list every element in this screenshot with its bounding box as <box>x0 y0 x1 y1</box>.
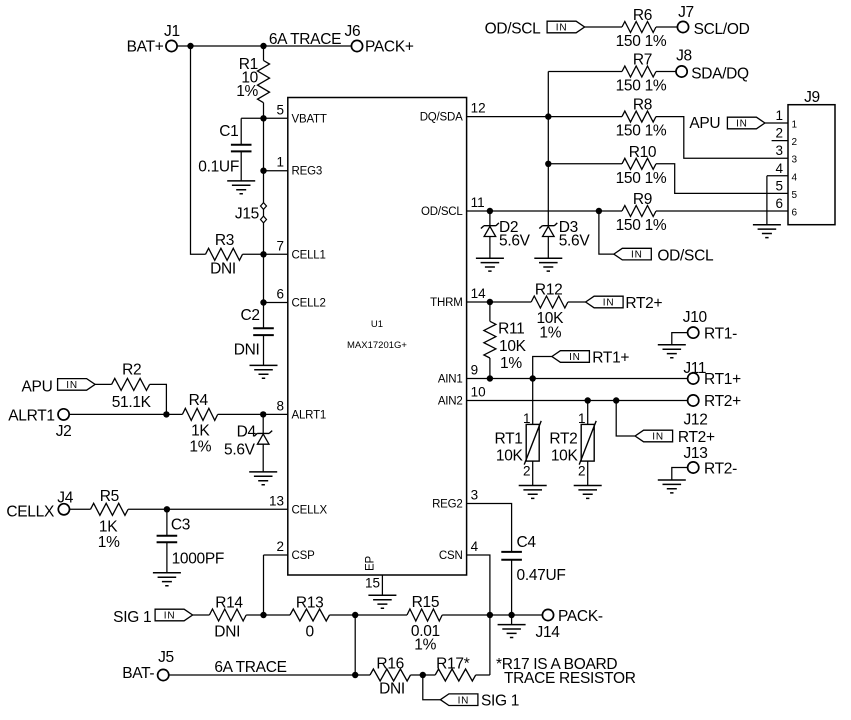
node ALRT1 left junction <box>163 411 169 417</box>
node R1 top junction <box>260 43 266 49</box>
svg-text:J12: J12 <box>683 411 707 428</box>
resistor R16 <box>370 656 411 698</box>
pin 13 CELLX <box>269 493 327 516</box>
connector J8 SDA/DQ <box>676 48 749 83</box>
svg-text:RT1: RT1 <box>494 431 522 448</box>
node CELL2 junction <box>260 299 266 305</box>
svg-text:CELL1: CELL1 <box>292 249 326 261</box>
svg-text:1%: 1% <box>98 534 120 551</box>
wire sense drop <box>354 615 356 675</box>
ground RT2 <box>574 486 602 499</box>
net label RT2+ IN J12 <box>616 401 715 447</box>
svg-text:SDA/DQ: SDA/DQ <box>691 65 749 82</box>
resistor R11 <box>484 302 527 379</box>
resistor R12 <box>531 282 585 342</box>
svg-text:DNI: DNI <box>210 260 236 277</box>
svg-text:RT1-: RT1- <box>704 326 737 343</box>
svg-text:PACK+: PACK+ <box>365 39 414 56</box>
resistor R5 <box>91 488 129 551</box>
svg-text:6: 6 <box>276 287 284 302</box>
svg-text:OD/SCL: OD/SCL <box>485 21 542 38</box>
wire SIG1 to R14 <box>193 614 210 616</box>
svg-text:6A TRACE: 6A TRACE <box>214 659 286 676</box>
node OD/SCL tag junction <box>596 208 602 214</box>
svg-text:IN: IN <box>164 611 176 622</box>
wire THRM row <box>467 301 532 303</box>
ground J10 <box>658 345 686 358</box>
pin 14 THRM <box>430 286 486 309</box>
svg-text:5: 5 <box>792 190 798 201</box>
connector J1 BAT+ <box>127 23 180 56</box>
svg-text:R14: R14 <box>215 594 243 611</box>
svg-text:R5: R5 <box>100 488 119 505</box>
node RT2 junction <box>585 397 591 403</box>
wire pin12 row <box>467 116 622 118</box>
svg-text:C4: C4 <box>517 534 537 551</box>
wire AIN2 row <box>467 400 688 402</box>
svg-text:SIG 1: SIG 1 <box>113 609 151 626</box>
node R10 junction <box>545 161 551 167</box>
node D2 junction <box>487 208 493 214</box>
connector J11 RT1+ <box>683 360 741 388</box>
svg-text:J4: J4 <box>57 489 73 506</box>
node BAT- junction <box>352 672 358 678</box>
svg-text:150 1%: 150 1% <box>616 33 667 50</box>
svg-text:6: 6 <box>792 208 798 219</box>
svg-text:J9: J9 <box>804 89 820 106</box>
svg-text:2: 2 <box>775 126 783 141</box>
capacitor C3 <box>157 509 225 573</box>
svg-text:RT2+: RT2+ <box>678 429 715 446</box>
svg-text:APU: APU <box>22 378 53 395</box>
capacitor C2 <box>234 303 274 366</box>
ground C1 <box>227 181 255 194</box>
connector J13 RT2- <box>672 445 737 480</box>
connector J2 ALRT1 <box>8 407 71 440</box>
svg-text:IN: IN <box>556 23 568 34</box>
svg-text:R11: R11 <box>498 321 524 338</box>
connector J12 RT2+ <box>683 393 741 429</box>
svg-text:5.6V: 5.6V <box>559 233 591 250</box>
svg-text:TRACE RESISTOR: TRACE RESISTOR <box>504 670 636 687</box>
svg-text:10K: 10K <box>496 447 524 464</box>
svg-text:15: 15 <box>365 576 380 591</box>
resistor R9 <box>616 191 788 234</box>
capacitor C4 <box>501 534 565 615</box>
svg-text:J2: J2 <box>56 423 72 440</box>
ground C2 <box>250 365 278 378</box>
svg-text:RT2: RT2 <box>549 431 577 448</box>
svg-text:IN: IN <box>652 432 664 443</box>
wire REG2 <box>467 504 512 552</box>
svg-text:1K: 1K <box>191 423 210 440</box>
svg-text:R6: R6 <box>633 7 652 24</box>
svg-text:THRM: THRM <box>430 297 462 309</box>
svg-text:J13: J13 <box>683 445 707 462</box>
svg-text:R7: R7 <box>633 52 652 69</box>
IC U1 MAX17201G+ <box>288 98 467 576</box>
node C4 junction <box>508 612 514 618</box>
pin 11 OD/SCL <box>421 195 485 218</box>
svg-text:SIG 1: SIG 1 <box>481 693 519 710</box>
svg-text:150 1%: 150 1% <box>616 170 667 187</box>
svg-text:R9: R9 <box>633 191 652 208</box>
svg-text:BAT+: BAT+ <box>127 39 164 56</box>
svg-text:2: 2 <box>276 539 284 554</box>
svg-text:SCL/OD: SCL/OD <box>694 21 750 38</box>
net label OD/SCL IN top <box>485 21 585 38</box>
wire J5 to R16 <box>169 674 370 676</box>
svg-text:J10: J10 <box>683 309 708 326</box>
svg-text:1%: 1% <box>189 438 211 455</box>
zener D2 <box>481 211 531 258</box>
resistor R17 <box>411 656 490 681</box>
svg-text:1: 1 <box>276 155 284 170</box>
svg-text:0.1UF: 0.1UF <box>198 159 239 176</box>
svg-text:10: 10 <box>471 385 486 400</box>
svg-text:CELL2: CELL2 <box>292 298 326 310</box>
resistor R6 <box>616 7 677 50</box>
node VBATT junction <box>260 115 266 121</box>
svg-text:1: 1 <box>775 108 783 123</box>
svg-text:R4: R4 <box>189 392 209 409</box>
node R13 junction <box>352 612 358 618</box>
svg-text:13: 13 <box>269 493 284 508</box>
svg-text:3: 3 <box>775 143 783 158</box>
svg-text:14: 14 <box>471 286 487 301</box>
wire VBATT bus <box>263 118 265 302</box>
ground C3 <box>153 573 181 586</box>
svg-text:1: 1 <box>792 120 798 131</box>
svg-text:PACK-: PACK- <box>558 608 603 625</box>
node BAT+ junction <box>187 43 193 49</box>
svg-text:150 1%: 150 1% <box>616 78 667 95</box>
resistor R4 <box>166 392 287 456</box>
svg-text:1%: 1% <box>414 636 436 653</box>
svg-text:DNI: DNI <box>379 680 405 697</box>
thermistor RT2 <box>549 401 596 486</box>
svg-text:J14: J14 <box>536 624 561 641</box>
node R16 junction <box>420 672 426 678</box>
svg-text:APU: APU <box>689 115 720 132</box>
svg-text:AIN1: AIN1 <box>438 374 463 386</box>
wire CSN <box>467 555 490 675</box>
svg-text:ALRT1: ALRT1 <box>292 409 327 421</box>
note R17 board trace <box>496 656 636 687</box>
svg-text:IN: IN <box>631 250 643 261</box>
svg-text:4: 4 <box>792 172 798 183</box>
connector J14 PACK- <box>536 608 603 641</box>
svg-text:5: 5 <box>775 178 783 193</box>
pin 3 REG2 <box>432 488 478 511</box>
wire APU to R2 <box>95 383 112 385</box>
pin 10 AIN2 <box>438 385 486 408</box>
svg-text:8: 8 <box>276 398 284 413</box>
node AIN1 junction <box>487 375 493 381</box>
net label APU IN <box>22 378 96 395</box>
svg-text:R2: R2 <box>122 362 141 379</box>
svg-text:ALRT1: ALRT1 <box>8 407 54 424</box>
ground D3 <box>534 258 562 271</box>
svg-text:C3: C3 <box>171 516 190 533</box>
svg-text:2: 2 <box>578 464 586 479</box>
capacitor C1 <box>198 118 263 181</box>
connector J5 BAT- <box>122 649 174 682</box>
jumper J15 <box>235 203 267 223</box>
svg-text:CELLX: CELLX <box>6 503 55 520</box>
node CSP junction <box>260 612 266 618</box>
svg-text:RT1+: RT1+ <box>592 350 629 367</box>
node REG3 junction <box>260 168 266 174</box>
ground PACK- <box>498 615 526 638</box>
ground EP <box>368 595 396 608</box>
svg-text:J7: J7 <box>678 4 694 21</box>
svg-text:R8: R8 <box>633 97 652 114</box>
svg-text:D4: D4 <box>237 424 257 441</box>
svg-text:AIN2: AIN2 <box>438 396 463 408</box>
node RT2 tag junction <box>613 397 619 403</box>
ground J13 <box>658 480 686 493</box>
svg-text:150 1%: 150 1% <box>616 123 667 140</box>
resistor R7 <box>548 52 675 95</box>
svg-text:J5: J5 <box>158 649 174 666</box>
wire R5 to CELLX pin <box>128 508 288 510</box>
label 6A TRACE <box>269 31 341 48</box>
svg-text:BAT-: BAT- <box>122 665 154 682</box>
svg-text:CELLX: CELLX <box>292 504 328 516</box>
resistor R13 <box>290 594 407 640</box>
net label SIG 1 IN bottom <box>423 675 519 710</box>
zener D4 <box>224 414 272 472</box>
ground RT1 <box>519 486 547 499</box>
svg-text:2: 2 <box>523 464 531 479</box>
svg-text:DNI: DNI <box>214 623 240 640</box>
svg-text:R16: R16 <box>376 656 404 673</box>
pin 6 CELL2 <box>264 287 326 310</box>
resistor R15 <box>407 594 542 653</box>
net label RT2+ IN <box>586 295 663 312</box>
connector J10 RT1- <box>672 309 737 345</box>
svg-text:DQ/SDA: DQ/SDA <box>420 112 463 124</box>
wire pin11 row <box>467 210 622 212</box>
pin 15 EP <box>365 556 383 596</box>
connector J9 <box>767 89 835 225</box>
svg-text:150 1%: 150 1% <box>616 217 667 234</box>
svg-text:0.47UF: 0.47UF <box>517 567 566 584</box>
svg-text:3: 3 <box>471 488 479 503</box>
svg-text:5.6V: 5.6V <box>499 233 531 250</box>
ground D4 <box>249 472 277 485</box>
svg-text:RT2+: RT2+ <box>704 393 741 410</box>
svg-text:4: 4 <box>775 161 783 176</box>
svg-text:9: 9 <box>471 363 479 378</box>
node C3 junction <box>164 506 170 512</box>
svg-text:IN: IN <box>458 695 470 706</box>
connector J4 CELLX <box>6 489 73 520</box>
svg-text:R3: R3 <box>215 232 234 249</box>
pin 4 CSN <box>439 539 479 562</box>
zener D3 <box>539 219 590 258</box>
svg-text:6A TRACE: 6A TRACE <box>269 31 341 48</box>
svg-text:OD/SCL: OD/SCL <box>657 248 714 265</box>
svg-text:U1: U1 <box>371 319 383 330</box>
ground D2 <box>476 258 504 271</box>
svg-text:J1: J1 <box>164 23 180 40</box>
svg-text:1%: 1% <box>539 325 561 342</box>
resistor R1 <box>236 46 269 118</box>
node THRM junction <box>487 299 493 305</box>
svg-text:J15: J15 <box>235 206 259 223</box>
node RT1 junction <box>530 375 536 381</box>
svg-text:4: 4 <box>471 539 479 554</box>
resistor R2 <box>112 362 167 415</box>
svg-text:C1: C1 <box>219 123 238 140</box>
svg-text:DNI: DNI <box>234 342 260 359</box>
node CELL1 junction <box>260 251 266 257</box>
svg-text:R15: R15 <box>412 594 440 611</box>
svg-text:EP: EP <box>365 556 377 571</box>
resistor R8 <box>616 97 788 159</box>
wire BAT+ down to R3 <box>191 46 206 254</box>
svg-text:REG3: REG3 <box>292 166 323 178</box>
svg-text:OD/SCL: OD/SCL <box>421 206 463 218</box>
ground J9 pin4 <box>753 225 781 238</box>
svg-text:RT1+: RT1+ <box>704 371 741 388</box>
resistor R3 <box>206 232 243 277</box>
net label SIG 1 IN <box>113 609 192 626</box>
svg-text:J8: J8 <box>676 48 692 65</box>
svg-text:10K: 10K <box>499 338 527 355</box>
connector J7 SCL/OD <box>677 4 749 38</box>
svg-text:R10: R10 <box>629 144 657 161</box>
node DQ/SDA junction <box>545 113 551 119</box>
wire J4 to R5 <box>70 508 91 510</box>
pin 2 CSP <box>264 539 316 615</box>
svg-text:10K: 10K <box>551 447 579 464</box>
svg-text:R17*: R17* <box>436 656 470 673</box>
resistor R10 <box>548 144 788 194</box>
svg-text:C2: C2 <box>240 307 259 324</box>
svg-text:2: 2 <box>792 137 798 148</box>
svg-text:1000PF: 1000PF <box>172 550 225 567</box>
net label APU IN J9 <box>689 115 788 132</box>
pin 1 REG3 <box>264 155 323 178</box>
svg-text:VBATT: VBATT <box>292 113 327 125</box>
svg-text:J11: J11 <box>683 360 706 377</box>
resistor R14 <box>209 594 290 640</box>
wire BAT+ to PACK+ <box>177 45 351 47</box>
svg-text:5.6V: 5.6V <box>224 442 256 459</box>
svg-text:IN: IN <box>66 380 78 391</box>
svg-text:3: 3 <box>792 155 798 166</box>
svg-text:CSP: CSP <box>292 550 316 562</box>
svg-text:REG2: REG2 <box>432 499 463 511</box>
svg-text:5: 5 <box>276 102 284 117</box>
thermistor RT1 <box>494 379 541 486</box>
net label OD/SCL IN mid <box>599 211 714 265</box>
svg-text:1%: 1% <box>500 355 522 372</box>
pin 12 DQ/SDA <box>420 101 486 124</box>
svg-text:1%: 1% <box>236 83 258 100</box>
svg-text:J6: J6 <box>345 23 361 40</box>
svg-text:12: 12 <box>471 101 486 116</box>
pin 7 CELL1 <box>243 238 326 261</box>
pin 8 ALRT1 <box>276 398 326 421</box>
svg-text:R12: R12 <box>535 282 563 299</box>
label 6A TRACE bottom <box>214 659 286 676</box>
svg-text:RT2-: RT2- <box>704 461 737 478</box>
svg-text:0: 0 <box>306 623 315 640</box>
svg-text:RT2+: RT2+ <box>625 295 662 312</box>
svg-text:51.1K: 51.1K <box>112 394 152 411</box>
svg-text:IN: IN <box>736 119 748 130</box>
svg-text:IN: IN <box>569 352 581 363</box>
connector J6 PACK+ <box>345 23 414 56</box>
svg-text:R13: R13 <box>296 594 324 611</box>
wire J2 to node <box>69 413 166 415</box>
svg-text:CSN: CSN <box>439 550 463 562</box>
svg-text:11: 11 <box>471 195 485 210</box>
svg-text:IN: IN <box>603 298 615 309</box>
wire DQ/SDA bus <box>547 72 549 226</box>
pin 5 VBATT <box>264 102 327 125</box>
svg-text:MAX17201G+: MAX17201G+ <box>347 340 407 351</box>
node ALRT1 junction <box>260 411 266 417</box>
svg-text:7: 7 <box>276 238 284 253</box>
pin 9 AIN1 <box>438 363 478 386</box>
node CSN junction <box>487 612 493 618</box>
wire tag to R6 <box>585 26 622 28</box>
wire AIN1 row <box>467 378 688 380</box>
svg-text:6: 6 <box>775 196 783 211</box>
net label RT1+ IN <box>533 350 630 379</box>
